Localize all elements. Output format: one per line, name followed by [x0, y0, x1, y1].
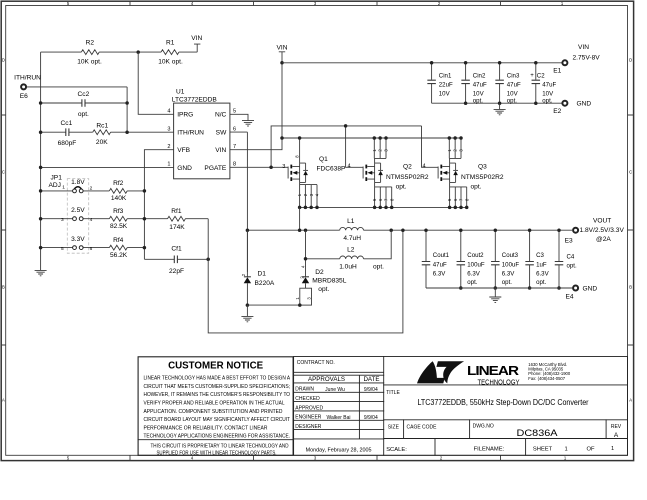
- svg-text:Cout2: Cout2: [467, 252, 484, 259]
- svg-text:Cc1: Cc1: [61, 120, 73, 127]
- op-amp U1 LTC3772EDDB body: [174, 103, 230, 179]
- JUMPER: [39, 174, 403, 333]
- svg-text:2: 2: [90, 185, 93, 191]
- svg-text:GND: GND: [177, 165, 192, 172]
- svg-text:Rf4: Rf4: [113, 237, 124, 244]
- svg-text:C2: C2: [537, 72, 545, 79]
- svg-text:A: A: [614, 432, 619, 439]
- svg-text:D2: D2: [315, 269, 324, 276]
- svg-text:+: +: [530, 72, 534, 79]
- svg-text:3: 3: [282, 164, 285, 170]
- zone ticks left: [1, 115, 6, 345]
- svg-text:N/C: N/C: [215, 112, 227, 119]
- svg-text:4: 4: [348, 164, 351, 170]
- svg-text:4.7uH: 4.7uH: [343, 235, 361, 242]
- shunt arc row1: [74, 187, 81, 189]
- OUTPUT: [241, 217, 624, 321]
- svg-text:B220A: B220A: [255, 280, 275, 287]
- zone letters right: [629, 58, 632, 403]
- diode D2 MBRD835L: [305, 259, 307, 288]
- svg-text:APPROVED: APPROVED: [295, 405, 323, 411]
- terminal E6 ITH/RUN: [21, 84, 26, 89]
- svg-text:3: 3: [167, 126, 170, 132]
- svg-text:Rf1: Rf1: [171, 208, 182, 215]
- svg-text:FDC638P: FDC638P: [317, 165, 347, 172]
- inductor L1 4.7uH: [340, 227, 364, 230]
- svg-text:NTMS5P02R2: NTMS5P02R2: [461, 174, 504, 181]
- svg-text:R1: R1: [166, 40, 175, 47]
- wire E6 to Cc2 loop: [27, 87, 128, 132]
- svg-text:6.3V: 6.3V: [536, 270, 549, 277]
- resistor R1: [161, 50, 179, 55]
- scale row: [386, 446, 614, 453]
- svg-text:Fax: (408)434-0507: Fax: (408)434-0507: [528, 376, 565, 381]
- TOPLEFT: [14, 35, 202, 270]
- capacitor Cc2: [82, 99, 85, 107]
- capacitor Cf1 22pF: [144, 258, 208, 260]
- wire SW/VOUT rail: [247, 229, 572, 231]
- svg-text:VFB: VFB: [177, 147, 190, 154]
- svg-text:DATE: DATE: [363, 376, 379, 383]
- svg-text:LTC3772EDDB, 550kHz Step-Down: LTC3772EDDB, 550kHz Step-Down DC/DC Conv…: [418, 398, 589, 407]
- zone numbers bottom: [67, 456, 567, 461]
- zone ticks top: [130, 1, 501, 5]
- svg-text:VIN: VIN: [578, 44, 589, 51]
- svg-text:56.2K: 56.2K: [110, 252, 128, 259]
- zone letters left: [2, 58, 5, 403]
- wire N/C stub: [230, 114, 248, 120]
- svg-text:680pF: 680pF: [58, 140, 77, 147]
- wire PGATE rail: [230, 126, 438, 167]
- svg-text:opt.: opt.: [536, 279, 546, 286]
- svg-text:ADJ: ADJ: [49, 182, 61, 189]
- svg-text:opt.: opt.: [542, 97, 552, 104]
- wire VOUT sense: [208, 219, 403, 333]
- jumper row 1.8V wires: [41, 190, 145, 192]
- ground D1: [246, 303, 250, 307]
- resistor Rf2 140K: [109, 189, 127, 194]
- svg-text:U1: U1: [176, 89, 185, 96]
- terminal E2 GND: [562, 101, 567, 106]
- capacitor Cin3: [499, 63, 501, 103]
- address block: [528, 362, 571, 381]
- svg-text:HOWEVER, IT REMAINS THE CUSTOM: HOWEVER, IT REMAINS THE CUSTOMER'S RESPO…: [144, 392, 291, 398]
- capacitor Cout3: [494, 230, 496, 288]
- ground at N/C: [242, 121, 254, 126]
- svg-text:TECHNOLOGY APPLICATIONS ENGINE: TECHNOLOGY APPLICATIONS ENGINEERING FOR …: [144, 434, 291, 440]
- svg-text:CONTRACT NO.: CONTRACT NO.: [297, 360, 335, 366]
- zone ticks bottom: [130, 455, 501, 460]
- resistor Rf3 82.5K: [109, 216, 127, 221]
- svg-text:VERIFY PROPER AND RELIABLE OPE: VERIFY PROPER AND RELIABLE OPERATION IN …: [144, 401, 285, 407]
- svg-text:Walker Bai: Walker Bai: [327, 415, 351, 421]
- svg-text:Rc1: Rc1: [96, 123, 108, 130]
- svg-text:SW: SW: [216, 129, 227, 136]
- svg-text:SHEET: SHEET: [533, 446, 553, 452]
- svg-text:174K: 174K: [169, 224, 185, 231]
- svg-text:Cf1: Cf1: [171, 245, 182, 252]
- svg-text:E6: E6: [20, 93, 28, 100]
- svg-text:opt.: opt.: [318, 286, 329, 293]
- wire VIN top rail to E1: [282, 62, 562, 64]
- wire VIN rail: [282, 137, 461, 139]
- svg-text:APPROVALS: APPROVALS: [308, 376, 345, 383]
- svg-text:47uF: 47uF: [433, 261, 447, 268]
- svg-text:6: 6: [233, 126, 236, 132]
- inductor L2 1.0uH: [306, 230, 392, 259]
- resistor Rf1 174K: [168, 216, 209, 221]
- jumper pins row3: [73, 246, 77, 250]
- jumper pins row1: [73, 189, 77, 193]
- svg-text:GND: GND: [583, 285, 598, 292]
- svg-text:opt.: opt.: [78, 111, 89, 118]
- svg-text:1: 1: [167, 162, 170, 168]
- svg-text:7: 7: [233, 144, 236, 150]
- svg-text:5: 5: [233, 109, 236, 115]
- zone numbers top: [67, 1, 564, 6]
- svg-text:CAGE CODE: CAGE CODE: [407, 424, 438, 430]
- TITLEBLOCK: [138, 357, 627, 457]
- svg-text:ENGINEER: ENGINEER: [295, 415, 322, 421]
- svg-text:Q1: Q1: [319, 156, 328, 163]
- svg-text:FILENAME:: FILENAME:: [474, 446, 505, 452]
- wire Cc2 row: [41, 102, 128, 104]
- svg-text:1: 1: [62, 185, 65, 191]
- capacitor C4: [558, 230, 560, 288]
- svg-text:L2: L2: [347, 246, 355, 253]
- node VIN to E1 rail: [280, 61, 284, 65]
- approvals rows: [295, 387, 378, 430]
- svg-text:opt.: opt.: [396, 183, 407, 190]
- svg-text:CIRCUIT THAT MEETS CUSTOMER-SU: CIRCUIT THAT MEETS CUSTOMER-SUPPLIED SPE…: [144, 384, 291, 390]
- package D2 outline: [300, 288, 312, 305]
- svg-text:APPLICATION. COMPONENT SUBSTI: APPLICATION. COMPONENT SUBSTITUTION AND …: [144, 409, 283, 415]
- svg-text:JP1: JP1: [51, 174, 63, 181]
- svg-text:ITH/RUN: ITH/RUN: [177, 129, 204, 136]
- svg-text:opt.: opt.: [473, 97, 483, 104]
- svg-text:B: B: [629, 285, 632, 290]
- svg-text:@2A: @2A: [596, 236, 611, 243]
- svg-text:1.8V: 1.8V: [71, 179, 85, 186]
- capacitor C3: [529, 230, 531, 288]
- svg-text:DWG.NO: DWG.NO: [473, 423, 494, 429]
- svg-text:10K opt.: 10K opt.: [77, 58, 102, 65]
- svg-text:NTMS5P02R2: NTMS5P02R2: [386, 174, 429, 181]
- wire Cout bottom rail: [426, 287, 573, 289]
- svg-text:D: D: [2, 58, 5, 63]
- customer notice box: [138, 357, 293, 456]
- capacitor Cout1: [425, 230, 427, 288]
- svg-text:opt.: opt.: [467, 279, 477, 286]
- svg-text:1: 1: [611, 446, 614, 452]
- svg-text:6: 6: [90, 246, 93, 252]
- svg-text:MBRD835L: MBRD835L: [312, 278, 346, 285]
- transistor Q2 NTMS5P02R2: [363, 163, 383, 182]
- svg-text:22uF: 22uF: [439, 82, 453, 89]
- svg-text:2: 2: [167, 144, 170, 150]
- jumper row 2.5V wires: [41, 218, 168, 220]
- left GND vertical: [40, 52, 42, 270]
- svg-text:1.8V/2.5V/3.3V: 1.8V/2.5V/3.3V: [580, 227, 625, 234]
- svg-text:LINEAR: LINEAR: [467, 364, 519, 378]
- svg-text:D: D: [629, 58, 632, 63]
- svg-text:C: C: [2, 170, 5, 175]
- svg-text:OF: OF: [587, 446, 596, 452]
- capacitor Cc1: [66, 128, 69, 136]
- svg-text:8: 8: [233, 162, 236, 168]
- wire D1-D2 bottom: [247, 304, 299, 306]
- terminal E1 VIN: [562, 60, 567, 65]
- svg-text:Cout1: Cout1: [433, 252, 450, 259]
- svg-text:TITLE: TITLE: [386, 390, 400, 396]
- svg-text:opt.: opt.: [567, 263, 577, 270]
- capacitor Cout2: [460, 230, 462, 288]
- svg-text:June Wu: June Wu: [325, 387, 345, 393]
- svg-text:Cin2: Cin2: [473, 72, 486, 79]
- svg-text:6.3V: 6.3V: [467, 270, 480, 277]
- svg-text:TECHNOLOGY: TECHNOLOGY: [478, 377, 520, 386]
- svg-text:B: B: [2, 285, 5, 290]
- svg-text:10V: 10V: [439, 90, 451, 97]
- svg-text:LTC3772EDDB: LTC3772EDDB: [172, 96, 218, 103]
- svg-text:E4: E4: [565, 294, 573, 301]
- scale row dividers: [435, 439, 526, 456]
- POWER: [230, 44, 600, 150]
- transistor Q3 NTMS5P02R2: [438, 163, 458, 182]
- svg-text:IPRG: IPRG: [177, 112, 193, 119]
- svg-text:2.5V: 2.5V: [71, 207, 85, 214]
- svg-text:REV: REV: [611, 424, 622, 430]
- svg-text:100uF: 100uF: [467, 261, 485, 268]
- svg-text:C3: C3: [536, 252, 544, 259]
- node junction R2/R1 to IPRG: [136, 50, 140, 54]
- svg-text:opt.: opt.: [471, 183, 482, 190]
- logo Linear Technology: [417, 361, 520, 386]
- svg-text:PERFORMANCE OR RELIABILITY. C: PERFORMANCE OR RELIABILITY. CONTACT LINE…: [144, 425, 268, 431]
- svg-text:C: C: [629, 170, 632, 175]
- svg-text:E3: E3: [565, 237, 573, 244]
- svg-text:D1: D1: [258, 271, 267, 278]
- capacitor C2 polarized: [535, 63, 537, 103]
- svg-text:20K: 20K: [96, 139, 108, 146]
- svg-text:5: 5: [61, 246, 64, 252]
- capacitor Cin2: [465, 63, 467, 103]
- svg-text:4: 4: [423, 164, 426, 170]
- svg-text:VIN: VIN: [191, 35, 202, 42]
- svg-text:3: 3: [61, 217, 64, 223]
- svg-text:Q3: Q3: [478, 164, 487, 171]
- svg-text:9/9/04: 9/9/04: [364, 415, 378, 421]
- jumper JP1 dashed option box: [67, 179, 88, 254]
- svg-text:47uF: 47uF: [507, 82, 521, 89]
- svg-text:opt.: opt.: [507, 97, 517, 104]
- svg-text:47uF: 47uF: [473, 82, 487, 89]
- svg-text:opt.: opt.: [502, 279, 512, 286]
- svg-text:SUPPLIED FOR USE WITH LINEAR T: SUPPLIED FOR USE WITH LINEAR TECHNOLOGY …: [157, 450, 277, 456]
- svg-text:Cin1: Cin1: [439, 72, 452, 79]
- VIN supply symbol at R1: [194, 44, 200, 52]
- wire IPRG feed: [138, 52, 173, 114]
- svg-text:6.3V: 6.3V: [502, 270, 515, 277]
- svg-text:1: 1: [565, 446, 568, 452]
- svg-text:CIRCUIT BOARD LAYOUT MAY SIGNI: CIRCUIT BOARD LAYOUT MAY SIGNIFICANTLY A…: [144, 417, 291, 423]
- resistor Rf4 56.2K: [109, 245, 127, 250]
- terminal E3 VOUT: [573, 228, 578, 233]
- contract no box: [294, 357, 384, 456]
- svg-text:DESIGNER: DESIGNER: [295, 424, 322, 430]
- jumper pins row2: [73, 217, 77, 221]
- size/cage/dwg dividers: [404, 420, 606, 439]
- ground Cout rail: [494, 288, 496, 297]
- IC: [35, 89, 254, 276]
- svg-text:opt.: opt.: [373, 264, 384, 271]
- svg-text:Cout3: Cout3: [502, 252, 519, 259]
- svg-text:L1: L1: [347, 218, 355, 225]
- resistor R2: [81, 50, 99, 55]
- zone ticks right: [628, 115, 634, 345]
- svg-text:Cin3: Cin3: [507, 72, 520, 79]
- svg-text:4: 4: [90, 217, 93, 223]
- resistor Rc1: [93, 130, 111, 135]
- svg-text:VOUT: VOUT: [593, 217, 611, 224]
- svg-text:2.75V-8V: 2.75V-8V: [573, 54, 601, 61]
- svg-text:22pF: 22pF: [169, 268, 184, 275]
- jumper row 3.3V wires: [41, 247, 145, 249]
- svg-text:R2: R2: [86, 40, 95, 47]
- capacitor Cin1: [431, 63, 433, 103]
- svg-text:VIN: VIN: [215, 147, 226, 154]
- wire R2/R1 row: [41, 51, 198, 53]
- svg-text:A: A: [629, 398, 632, 403]
- svg-text:Rf2: Rf2: [113, 180, 124, 187]
- svg-text:E2: E2: [553, 108, 561, 115]
- svg-text:C4: C4: [567, 253, 575, 260]
- svg-text:GND: GND: [577, 101, 592, 108]
- svg-text:100uF: 100uF: [502, 261, 520, 268]
- wire source stub rail: [300, 206, 467, 208]
- wire rail to SW node: [299, 207, 301, 230]
- svg-text:VIN: VIN: [277, 44, 288, 51]
- svg-text:4: 4: [167, 109, 170, 115]
- approvals table lines: [294, 375, 384, 439]
- svg-text:3.3V: 3.3V: [71, 236, 85, 243]
- svg-text:DRAWN: DRAWN: [295, 387, 314, 393]
- svg-text:CUSTOMER NOTICE: CUSTOMER NOTICE: [168, 360, 263, 371]
- svg-text:LINEAR TECHNOLOGY HAS MADE A B: LINEAR TECHNOLOGY HAS MADE A BEST EFFORT…: [144, 376, 291, 382]
- ground Cin rail: [499, 103, 501, 109]
- wire Cin bottom rail: [432, 102, 562, 104]
- svg-text:10K opt.: 10K opt.: [158, 58, 183, 65]
- svg-text:THIS CIRCUIT IS PROPRIETARY TO: THIS CIRCUIT IS PROPRIETARY TO LINEAR TE…: [151, 444, 289, 450]
- svg-text:140K: 140K: [111, 195, 127, 202]
- svg-text:ITH/RUN: ITH/RUN: [14, 75, 41, 82]
- svg-text:SCALE:: SCALE:: [386, 447, 407, 453]
- svg-text:Cc2: Cc2: [78, 91, 90, 98]
- svg-text:PGATE: PGATE: [204, 165, 226, 172]
- svg-text:82.5K: 82.5K: [110, 223, 128, 230]
- svg-text:9/9/04: 9/9/04: [364, 387, 378, 393]
- svg-text:A: A: [2, 398, 5, 403]
- svg-text:CHECKED: CHECKED: [295, 396, 320, 402]
- wire GND stub: [41, 166, 174, 168]
- diode D1 B220A: [246, 230, 248, 305]
- svg-text:SIZE: SIZE: [388, 424, 400, 430]
- svg-text:Monday, February 28, 2005: Monday, February 28, 2005: [306, 447, 372, 453]
- wire VFB stub: [144, 150, 173, 260]
- svg-text:Q2: Q2: [403, 164, 412, 171]
- transistor Q1 FDC638P: [288, 163, 308, 182]
- svg-text:1uF: 1uF: [536, 261, 547, 268]
- right section rows: [384, 385, 628, 439]
- terminal E4 GND: [573, 286, 578, 291]
- ground left rail: [35, 270, 47, 275]
- svg-text:1.0uH: 1.0uH: [339, 264, 357, 271]
- svg-text:6.3V: 6.3V: [433, 270, 446, 277]
- wire Cc1/Rc1 row to ITH/RUN: [41, 131, 174, 133]
- title block outline: [294, 357, 628, 456]
- wire SW net: [230, 132, 248, 272]
- svg-text:E1: E1: [553, 68, 561, 75]
- svg-text:Rf3: Rf3: [113, 208, 124, 215]
- svg-text:DC836A: DC836A: [517, 428, 559, 438]
- svg-text:47uF: 47uF: [542, 82, 556, 89]
